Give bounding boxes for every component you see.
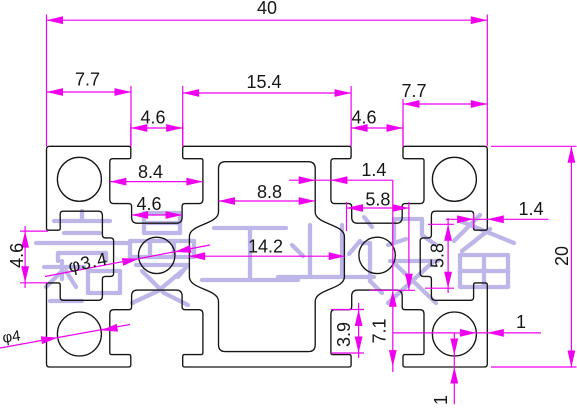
hole φ4 bottom-left [57, 312, 101, 356]
svg-text:7.1: 7.1 [370, 318, 390, 343]
dimension 20 overall height, right [491, 146, 577, 367]
leader φ4 bottom-left hole [0, 324, 130, 348]
svg-text:4.6: 4.6 [136, 194, 161, 214]
hole φ3.4 right-center [359, 237, 395, 273]
dimension 4.6 top-right slot opening [351, 108, 403, 147]
svg-text:8.4: 8.4 [138, 162, 163, 182]
svg-text:20: 20 [552, 246, 572, 266]
svg-text:φ4: φ4 [1, 327, 21, 346]
svg-text:4.6: 4.6 [140, 108, 165, 128]
dimension 8.4 top-left slot cavity width [110, 162, 203, 186]
dimension 5.8 right slot height [425, 218, 454, 293]
central cavity [189, 162, 344, 352]
svg-text:3.9: 3.9 [334, 322, 354, 347]
svg-text:4.6: 4.6 [7, 243, 27, 268]
svg-text:7.7: 7.7 [75, 70, 100, 90]
dimension 7.1 recess top to bottom face [370, 180, 416, 372]
svg-text:5.8: 5.8 [365, 189, 390, 209]
svg-text:4.6: 4.6 [351, 108, 376, 128]
dimension 1 circle edge to bottom edge [431, 333, 458, 405]
dimension 1.4 web between cavity and slot [289, 160, 393, 184]
dimension 15.4 top middle [183, 72, 351, 147]
svg-text:7.7: 7.7 [401, 81, 426, 101]
profile outer boundary (20x40 extrusion cross-section) [47, 146, 488, 367]
dimension 1.4 right slot lip thickness [446, 199, 549, 228]
watermark character 业 [278, 225, 374, 277]
watermark character 嘉 [36, 211, 128, 301]
dimension 7.7 top-right flange [401, 81, 487, 146]
svg-text:1.4: 1.4 [361, 160, 386, 180]
dimension 1 circle edge to right edge [393, 312, 541, 337]
svg-text:40: 40 [257, 0, 277, 18]
watermark character 设 [362, 217, 438, 303]
hole φ4 bottom-right [432, 312, 476, 356]
watermark character 工 [202, 228, 298, 280]
dimension 4.6 left slot opening height [7, 226, 48, 288]
svg-text:8.8: 8.8 [257, 182, 282, 202]
dimension 7.7 top-left flange [47, 70, 132, 147]
hole φ3.4 left-center [139, 237, 175, 273]
svg-text:14.2: 14.2 [248, 237, 283, 257]
dimension 5.8 top-right recess span [347, 189, 413, 290]
dimension 40 overall width, top [47, 0, 488, 146]
svg-text:5.8: 5.8 [428, 243, 448, 268]
svg-text:15.4: 15.4 [246, 72, 281, 92]
watermark character 曼 [130, 213, 194, 305]
svg-text:1.4: 1.4 [518, 199, 543, 219]
hole φ4 top-left [57, 157, 101, 201]
svg-text:1: 1 [431, 395, 451, 405]
dimension 3.9 bottom-right slot cavity height [331, 303, 364, 358]
svg-text:1: 1 [516, 312, 526, 332]
dimension 4.6 top-left slot recess [132, 194, 183, 219]
leader φ3.4 center hole [45, 245, 210, 277]
hole φ4 top-right [432, 157, 476, 201]
dimension 8.8 central cavity width [219, 182, 316, 205]
dimension 14.2 central cavity bulge width [189, 237, 346, 261]
watermark character 备 [454, 215, 514, 287]
dimension 4.6 top-left slot opening [131, 108, 183, 147]
